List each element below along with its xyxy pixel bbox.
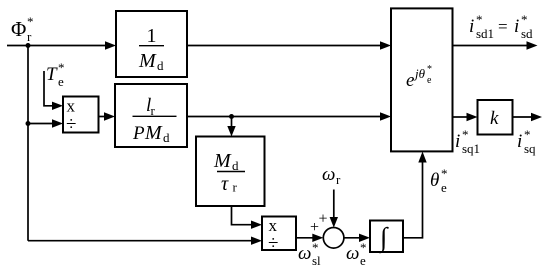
- svg-text:ω: ω: [346, 243, 359, 264]
- svg-text:d: d: [157, 58, 164, 73]
- svg-text:*: *: [524, 127, 531, 142]
- wire bottom long run to divider input of multiplier-divider 2: [28, 237, 262, 245]
- node junction dot at divider tap: [26, 121, 31, 126]
- wire integrator output up to e^(j theta) block: [403, 152, 427, 238]
- block G1 1/M_d: [116, 11, 187, 77]
- wire M_d/tau_r output into multiplier input of multiplier-divider 2: [232, 206, 263, 229]
- node omega_r input label: [322, 164, 341, 187]
- svg-text:i: i: [514, 16, 519, 37]
- svg-text:÷: ÷: [66, 114, 76, 135]
- wire e^(j theta) to k block: [453, 113, 478, 121]
- block X1 multiplier-divider 1: [63, 97, 99, 136]
- svg-text:e: e: [427, 75, 432, 86]
- svg-text:r: r: [233, 180, 238, 195]
- node junction dot on Phi line: [26, 43, 31, 48]
- svg-text:*: *: [521, 12, 528, 27]
- svg-text:÷: ÷: [268, 233, 278, 254]
- svg-text:*: *: [58, 60, 65, 75]
- wire multiplier-divider 1 to l_r/PM_d block: [99, 112, 116, 120]
- svg-text:∫: ∫: [378, 222, 389, 254]
- svg-text:*: *: [441, 166, 448, 181]
- svg-text:sq: sq: [524, 141, 536, 156]
- node label i_sd1* = i_sd*: [469, 12, 533, 41]
- svg-text:M: M: [144, 122, 163, 144]
- svg-text:x: x: [67, 97, 76, 116]
- block vector rotator e^(j theta_e*): [391, 8, 453, 151]
- block X2 multiplier-divider 2: [262, 216, 296, 254]
- svg-text:sl: sl: [312, 253, 321, 268]
- wire Phi_r* input horizontal: [7, 41, 116, 49]
- wire omega_r into summing junction top: [330, 190, 338, 228]
- svg-text:i: i: [469, 16, 474, 37]
- svg-text:i: i: [455, 131, 460, 152]
- svg-text:e: e: [406, 70, 414, 91]
- svg-text:e: e: [360, 253, 366, 268]
- wire omega_sl to summing junction: [296, 234, 323, 242]
- block G2 l_r/(P M_d): [115, 84, 187, 147]
- svg-text:r: r: [336, 172, 341, 187]
- svg-text:+: +: [319, 211, 328, 228]
- svg-text:M: M: [213, 150, 232, 172]
- wire l_r/PM_d output to e^(j theta) block: [187, 112, 391, 120]
- svg-text:sd: sd: [521, 26, 533, 41]
- node omega_sl* label: [298, 240, 321, 268]
- svg-text:T: T: [46, 64, 58, 85]
- node label i_sq*: [517, 127, 536, 156]
- wire tap to divider input of multiplier-divider 1: [28, 119, 63, 127]
- svg-text:d: d: [163, 130, 170, 145]
- wire k output i_sq*: [513, 113, 543, 121]
- node theta_e* label: [430, 166, 448, 195]
- wire 1/M_d output to e^(j theta) block: [187, 41, 391, 49]
- wire branch down into M_d/tau_r: [227, 117, 235, 137]
- svg-text:Φ: Φ: [11, 17, 26, 41]
- node T_e* input label: [46, 60, 65, 89]
- svg-text:jθ: jθ: [413, 66, 426, 81]
- wire T_e* into multiplier input: [44, 71, 63, 110]
- svg-text:e: e: [441, 180, 447, 195]
- svg-text:*: *: [462, 127, 469, 142]
- block gain k: [478, 100, 513, 135]
- svg-text:ω: ω: [298, 243, 311, 264]
- svg-text:1: 1: [147, 25, 157, 47]
- svg-text:i: i: [517, 131, 522, 152]
- svg-text:r: r: [27, 29, 32, 44]
- svg-text:ω: ω: [322, 164, 335, 185]
- svg-text:τ: τ: [221, 173, 229, 195]
- wire i_sd1* output: [453, 41, 538, 49]
- node Phi_r* input label: [11, 14, 34, 44]
- wire summing junction to integrator: [344, 234, 370, 242]
- svg-text:sq1: sq1: [462, 141, 480, 156]
- svg-text:e: e: [58, 74, 64, 89]
- wire Phi_r* vertical branch down: [27, 46, 29, 241]
- svg-text:*: *: [427, 64, 432, 75]
- svg-text:*: *: [476, 12, 483, 27]
- svg-text:M: M: [138, 50, 157, 72]
- svg-text:P: P: [132, 123, 145, 144]
- svg-text:k: k: [490, 108, 499, 129]
- node junction dot on flux current line: [229, 114, 234, 119]
- svg-text:d: d: [232, 158, 239, 173]
- svg-text:sd1: sd1: [476, 26, 494, 41]
- node summing junction circle: [323, 228, 344, 249]
- svg-text:*: *: [27, 14, 34, 29]
- block integrator: [370, 221, 403, 255]
- block G3 M_d/tau_r: [196, 137, 265, 207]
- node omega_e* label: [346, 240, 367, 268]
- node label i_sq1*: [455, 127, 480, 156]
- svg-text:=: =: [498, 17, 508, 36]
- svg-text:θ: θ: [430, 170, 439, 191]
